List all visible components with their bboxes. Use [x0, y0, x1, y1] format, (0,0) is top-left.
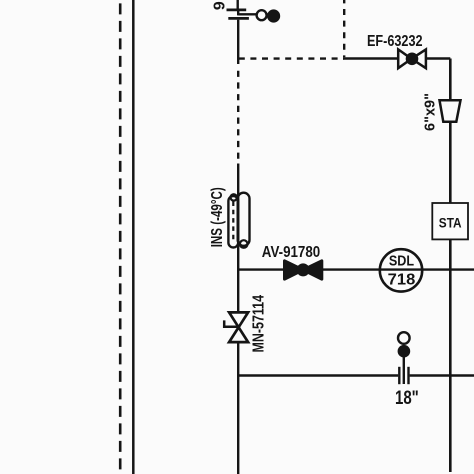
wire: right header vertical, reducer to STA box	[449, 122, 452, 203]
wire: solid vertical main line above INS spool	[237, 164, 239, 197]
svg-text:18": 18"	[395, 387, 419, 409]
wire: solid vertical below flanges	[237, 20, 239, 64]
insulated spool: dashed centerline	[232, 202, 234, 243]
spectacle blind 18in: right flange bar	[407, 367, 409, 384]
svg-text:6"x9": 6"x9"	[423, 93, 439, 131]
spectacle blind 18in: open ring	[398, 332, 410, 344]
valve MN-57114 handle	[224, 320, 238, 326]
label 6"x9" (rotated)	[423, 93, 439, 131]
spectacle blind (open ring)	[257, 10, 267, 20]
valve MN-57114 (gate valve on vertical line)	[229, 312, 248, 342]
svg-text:MN-57114: MN-57114	[250, 295, 267, 353]
label 18"	[395, 387, 419, 409]
insulated spool: right shell	[238, 193, 250, 246]
wire: dashed vertical riser x=344 to top	[343, 0, 345, 57]
wire: bottom branch horizontal right of blind	[410, 374, 474, 376]
valve AV-91780 (closed bowtie)	[285, 261, 322, 279]
wire: solid vertical main line through to MN valve	[237, 196, 239, 312]
label INS (-49 C) rotated	[209, 187, 226, 247]
wire: dashed horizontal branch at y=58.6	[238, 57, 344, 59]
svg-text:9: 9	[212, 1, 229, 10]
svg-text:EF-63232: EF-63232	[367, 33, 423, 50]
wire: top stub above flange pair	[236, 0, 238, 9]
wire: AV branch horizontal line y=269.6	[238, 268, 474, 270]
box STA	[432, 203, 468, 239]
label EF-63232	[367, 33, 423, 50]
wire: right header vertical, STA box to bottom	[449, 239, 452, 472]
spectacle blind 18in: stem	[403, 356, 405, 384]
wire: left solid vertical line	[132, 0, 135, 474]
wire: stub to spectacle blind	[238, 13, 257, 15]
spectacle blind 18in: closed disc	[398, 345, 411, 358]
flange pair at top (lower flange)	[228, 17, 249, 20]
label 9 (line size, rotated)	[212, 1, 229, 10]
svg-text:AV-91780: AV-91780	[262, 244, 321, 261]
wire: main vertical below MN valve to bottom	[237, 342, 239, 474]
valve EF-63232 (ball valve, open bowtie with ball)	[398, 49, 426, 68]
label MN-57114 rotated	[250, 295, 267, 353]
reducer 6"x9"	[440, 100, 461, 122]
spectacle blind 18in: left flange bar	[398, 367, 400, 384]
wire: valve outlet to right header	[426, 57, 450, 60]
insulated spool INS (-49 C): left shell	[228, 196, 238, 248]
wire: solid horizontal into valve EF-63232	[343, 57, 399, 60]
wire: left battery-limit dashed line	[119, 0, 122, 474]
flange pair at top (upper flange)	[227, 9, 247, 12]
wire: dashed vertical main line x=238	[237, 70, 239, 164]
label AV-91780	[262, 244, 321, 261]
spectacle blind (closed disc)	[267, 9, 280, 22]
svg-text:SDL: SDL	[389, 252, 414, 269]
wire: right header vertical, top section	[449, 59, 452, 101]
wire: bottom branch horizontal left of blind	[238, 374, 398, 376]
instrument bubble SDL 718	[380, 249, 422, 291]
wire: short connector between flanges	[237, 11, 239, 16]
insulated spool: bottom end cap circle	[240, 240, 248, 248]
insulated spool: top end cap circle	[231, 194, 237, 200]
svg-text:INS (-49°C): INS (-49°C)	[209, 187, 226, 247]
svg-text:718: 718	[388, 272, 416, 289]
svg-text:STA: STA	[439, 215, 462, 230]
